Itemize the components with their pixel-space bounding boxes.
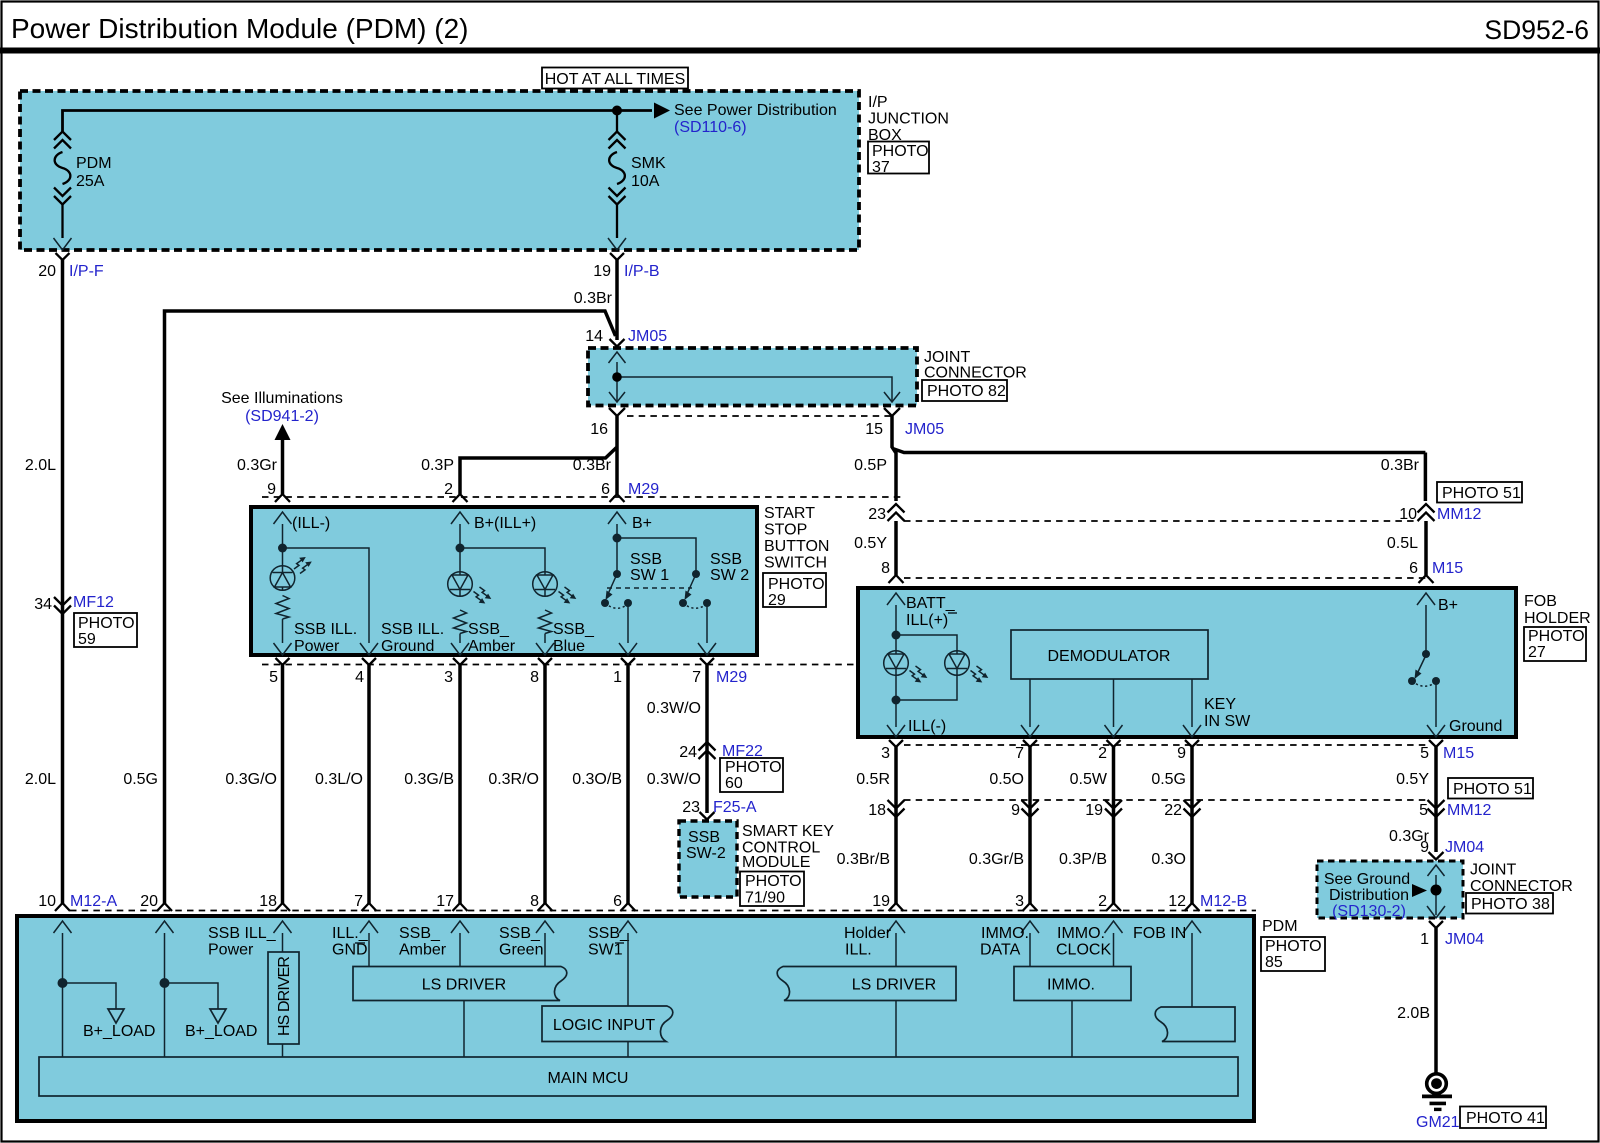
svg-text:7: 7	[692, 669, 701, 686]
svg-text:Power Distribution Module (PDM: Power Distribution Module (PDM) (2)	[11, 13, 468, 44]
key in switch	[1417, 605, 1426, 674]
svg-text:SWITCH: SWITCH	[764, 555, 827, 572]
svg-text:IMMO.: IMMO.	[981, 925, 1029, 942]
svg-text:0.5R: 0.5R	[856, 771, 890, 788]
gang dashed link	[607, 587, 692, 589]
svg-text:SSB_: SSB_	[553, 621, 595, 638]
svg-text:SSB ILL.: SSB ILL.	[381, 621, 444, 638]
SSB SW1 and SW2 switches	[617, 524, 696, 574]
wire 0.5L to FOB holder	[1424, 521, 1428, 575]
pin 19 I/P-B	[608, 238, 626, 260]
svg-text:9: 9	[1177, 745, 1186, 762]
MAIN MCU box	[39, 1057, 1238, 1096]
svg-text:B+(ILL+): B+(ILL+)	[474, 515, 536, 532]
pin 20 I/P-F	[54, 238, 72, 260]
LED SSB_Amber	[448, 572, 473, 597]
wire 0.3Br from 16 splitting to pins 2 and 6	[460, 416, 617, 494]
svg-text:0.3G/B: 0.3G/B	[404, 771, 454, 788]
svg-text:0.5P: 0.5P	[854, 457, 887, 474]
svg-text:(SD110-6): (SD110-6)	[674, 119, 747, 136]
svg-text:0.3L/O: 0.3L/O	[315, 771, 363, 788]
svg-text:SSB: SSB	[710, 551, 742, 568]
svg-text:SMART KEY: SMART KEY	[742, 823, 834, 840]
svg-text:JM04: JM04	[1445, 931, 1484, 948]
svg-text:M15: M15	[1443, 745, 1474, 762]
svg-text:20: 20	[140, 893, 158, 910]
svg-text:JM05: JM05	[905, 421, 944, 438]
svg-text:18: 18	[868, 802, 886, 819]
MM12 dashed line top	[904, 520, 1419, 522]
switch levers	[608, 574, 696, 594]
svg-text:1: 1	[613, 669, 622, 686]
svg-text:22: 22	[1164, 802, 1182, 819]
svg-text:6: 6	[613, 893, 622, 910]
svg-text:Blue: Blue	[553, 638, 585, 655]
connector 10 MM12	[1418, 504, 1435, 521]
svg-text:SW-2: SW-2	[686, 845, 726, 862]
svg-text:2: 2	[444, 481, 453, 498]
title separator line	[0, 48, 1600, 54]
LED holder ill 1	[884, 651, 909, 676]
svg-text:0.5G: 0.5G	[123, 771, 158, 788]
svg-text:MM12: MM12	[1437, 506, 1482, 523]
svg-text:(SD941-2): (SD941-2)	[245, 408, 319, 425]
PHOTO 82 box	[922, 380, 1007, 401]
junction dot at SMK branch	[612, 106, 622, 116]
arrow to power distribution	[654, 103, 670, 119]
svg-text:0.3Br: 0.3Br	[573, 457, 612, 474]
svg-text:B+: B+	[1438, 597, 1458, 614]
svg-text:9: 9	[1420, 839, 1429, 856]
svg-text:27: 27	[1528, 644, 1546, 661]
wire 0.3Br from I/P-B down to JM05	[615, 259, 619, 340]
svg-text:SW1: SW1	[588, 942, 623, 959]
demodulator output wires	[1030, 679, 1192, 727]
svg-text:PHOTO 41: PHOTO 41	[1466, 1110, 1545, 1127]
svg-text:ILL(-): ILL(-)	[908, 718, 946, 735]
svg-text:5: 5	[269, 669, 278, 686]
wire into LOGIC INPUT	[627, 933, 629, 1006]
connector 24 MF22	[699, 742, 716, 759]
fuse SMK 10A	[616, 115, 618, 133]
svg-text:20: 20	[38, 263, 56, 280]
inner wire of JM04	[1435, 875, 1437, 915]
arrow to junction	[1412, 884, 1427, 897]
svg-text:LS DRIVER: LS DRIVER	[422, 977, 506, 994]
svg-text:0.5L: 0.5L	[1387, 535, 1418, 552]
svg-text:18: 18	[259, 893, 277, 910]
M12 dashed line above PDM	[70, 910, 1256, 912]
svg-text:PHOTO 82: PHOTO 82	[927, 383, 1006, 400]
pins below SSB box	[276, 658, 715, 665]
wires FOB to MM12 row	[894, 746, 898, 904]
svg-text:5: 5	[1420, 745, 1429, 762]
wire: bus inside junction box	[63, 111, 653, 134]
wire into LS driver 2	[895, 933, 897, 967]
svg-text:0.3Gr/B: 0.3Gr/B	[969, 851, 1024, 868]
svg-text:0.3W/O: 0.3W/O	[647, 700, 701, 717]
connector 34 MF12	[54, 597, 71, 614]
wire 2.0L left vertical	[61, 259, 65, 904]
PDM box	[17, 916, 1254, 1121]
svg-text:59: 59	[78, 631, 96, 648]
svg-text:B+_LOAD: B+_LOAD	[185, 1023, 257, 1040]
svg-text:0.5O: 0.5O	[989, 771, 1024, 788]
svg-text:5: 5	[1419, 802, 1428, 819]
svg-text:Ground: Ground	[1449, 718, 1502, 735]
svg-text:23: 23	[682, 799, 700, 816]
svg-text:3: 3	[444, 669, 453, 686]
wire 0.3Gr up to see illuminations	[281, 438, 285, 494]
connector 5 MM12	[1428, 800, 1445, 817]
svg-text:0.5Y: 0.5Y	[1396, 771, 1429, 788]
svg-text:0.3Br: 0.3Br	[1381, 457, 1420, 474]
svg-text:M29: M29	[628, 481, 659, 498]
svg-text:GND: GND	[332, 942, 368, 959]
M15 dashed line	[904, 577, 1428, 579]
PHOTO 41 box	[1460, 1107, 1546, 1129]
svg-text:3: 3	[881, 745, 890, 762]
pin 16 JM05	[609, 408, 625, 416]
DEMODULATOR box	[1011, 630, 1208, 679]
svg-text:JUNCTION: JUNCTION	[868, 111, 949, 128]
svg-text:8: 8	[530, 893, 539, 910]
svg-text:JM04: JM04	[1445, 839, 1484, 856]
FOB illumination LEDs	[896, 605, 957, 727]
svg-text:0.5G: 0.5G	[1151, 771, 1186, 788]
svg-text:SMK: SMK	[631, 155, 666, 172]
svg-text:KEY: KEY	[1204, 696, 1236, 713]
I/P junction box (dashed)	[20, 91, 859, 250]
PHOTO 60 box	[720, 758, 783, 792]
SSB ILL power branch: wire, LED, resistor	[283, 524, 370, 643]
svg-text:0.3Br: 0.3Br	[574, 290, 613, 307]
svg-text:(SD130-2): (SD130-2)	[1332, 903, 1406, 920]
PHOTO 27 box	[1524, 627, 1586, 661]
svg-text:2.0L: 2.0L	[25, 457, 56, 474]
connector 22 MM12	[1184, 800, 1201, 817]
LED holder ill 2	[945, 651, 970, 676]
PHOTO 38 box	[1466, 893, 1553, 914]
svg-text:29: 29	[768, 592, 786, 609]
svg-text:PHOTO: PHOTO	[745, 873, 802, 890]
wires into LS driver 1	[369, 933, 545, 967]
svg-text:8: 8	[530, 669, 539, 686]
svg-text:0.5Y: 0.5Y	[854, 535, 887, 552]
svg-text:SSB_: SSB_	[399, 925, 441, 942]
svg-text:Green: Green	[499, 942, 543, 959]
svg-text:0.3O/B: 0.3O/B	[572, 771, 622, 788]
svg-text:85: 85	[1265, 954, 1283, 971]
svg-text:PHOTO: PHOTO	[725, 759, 782, 776]
ground GM21	[1427, 1074, 1447, 1094]
svg-text:F25-A: F25-A	[713, 799, 757, 816]
svg-text:12: 12	[1168, 893, 1186, 910]
LOGIC INPUT banner	[542, 1006, 673, 1042]
svg-text:M29: M29	[716, 669, 747, 686]
svg-text:Amber: Amber	[399, 942, 447, 959]
svg-text:0.3R/O: 0.3R/O	[488, 771, 539, 788]
svg-text:MAIN MCU: MAIN MCU	[548, 1070, 629, 1087]
FOB IN banner (blank)	[1155, 1007, 1235, 1042]
svg-text:LS DRIVER: LS DRIVER	[852, 977, 936, 994]
connector 18 MM12	[888, 800, 905, 817]
svg-text:IMMO.: IMMO.	[1047, 977, 1095, 994]
svg-text:BATT_: BATT_	[906, 595, 956, 612]
svg-text:PHOTO 51: PHOTO 51	[1453, 781, 1532, 798]
wire 0.5Y to FOB holder	[894, 521, 898, 575]
svg-text:2: 2	[1098, 745, 1107, 762]
svg-text:6: 6	[601, 481, 610, 498]
svg-text:14: 14	[585, 328, 603, 345]
svg-text:BUTTON: BUTTON	[764, 538, 829, 555]
svg-text:3: 3	[1015, 893, 1024, 910]
svg-text:M12-A: M12-A	[70, 893, 117, 910]
svg-text:0.5W: 0.5W	[1070, 771, 1108, 788]
svg-text:19: 19	[1085, 802, 1103, 819]
svg-text:JOINT: JOINT	[1470, 862, 1516, 879]
svg-text:B+_LOAD: B+_LOAD	[83, 1023, 155, 1040]
svg-text:0.3P: 0.3P	[421, 457, 454, 474]
B+ load branch 2	[165, 933, 219, 1057]
svg-text:I/P-F: I/P-F	[69, 263, 104, 280]
svg-text:Power: Power	[294, 638, 340, 655]
svg-text:SSB: SSB	[688, 829, 720, 846]
svg-text:60: 60	[725, 775, 743, 792]
M29 connector dashed line (top of SSB switch)	[262, 496, 905, 498]
LS DRIVER banner 2	[777, 967, 956, 1001]
svg-text:PHOTO: PHOTO	[872, 143, 929, 160]
LED SSB ILL	[270, 566, 295, 591]
svg-text:SSB_: SSB_	[499, 925, 541, 942]
B+ load branch 1	[63, 933, 117, 1057]
LS DRIVER banner 1	[353, 967, 567, 1001]
pin 15 JM05	[884, 408, 900, 416]
svg-text:Amber: Amber	[468, 638, 516, 655]
svg-text:19: 19	[872, 893, 890, 910]
svg-text:HS DRIVER: HS DRIVER	[276, 956, 293, 1036]
svg-text:PDM: PDM	[76, 155, 112, 172]
svg-text:LOGIC INPUT: LOGIC INPUT	[553, 1017, 655, 1034]
FOB box bottom pins	[887, 725, 905, 747]
IMMO. banner	[1014, 967, 1131, 1001]
svg-text:CONNECTOR: CONNECTOR	[924, 365, 1027, 382]
svg-text:8: 8	[881, 560, 890, 577]
PHOTO 51 box top right	[1437, 482, 1522, 503]
svg-text:SW 2: SW 2	[710, 567, 749, 584]
svg-text:19: 19	[593, 263, 611, 280]
svg-text:Holder: Holder	[844, 925, 892, 942]
svg-text:0.3W/O: 0.3W/O	[647, 771, 701, 788]
svg-text:9: 9	[1011, 802, 1020, 819]
svg-text:HOLDER: HOLDER	[1524, 610, 1591, 627]
svg-text:IMMO.: IMMO.	[1057, 925, 1105, 942]
LED SSB_Blue	[533, 572, 558, 597]
connector 19 MM12	[1105, 800, 1122, 817]
svg-text:PHOTO: PHOTO	[1528, 628, 1585, 645]
wire 0.3W/O pin 7 to MF22	[705, 665, 709, 813]
svg-text:PHOTO 38: PHOTO 38	[1471, 896, 1550, 913]
svg-text:See Illuminations: See Illuminations	[221, 390, 343, 407]
wire into FOB IN banner	[1191, 933, 1193, 1007]
START STOP BUTTON SWITCH box	[251, 507, 757, 655]
svg-text:0.3O: 0.3O	[1151, 851, 1186, 868]
PHOTO 71/90 box	[740, 872, 804, 907]
svg-text:HOT AT ALL TIMES: HOT AT ALL TIMES	[545, 71, 686, 88]
dashed line below FOB (M15)	[904, 744, 1428, 746]
FOB HOLDER box	[858, 588, 1516, 737]
svg-text:MF12: MF12	[73, 594, 114, 611]
svg-text:34: 34	[34, 596, 52, 613]
svg-text:SD952-6: SD952-6	[1484, 15, 1589, 45]
svg-text:ILL(+): ILL(+)	[906, 612, 948, 629]
wire 0.5P from 15 down and branch right 0.3Br	[892, 416, 1425, 501]
wires from contacts to pins 1 and 7	[628, 606, 707, 643]
wires into IMMO	[1030, 933, 1114, 967]
PDM pins	[54, 903, 72, 933]
svg-text:SSB ILL.: SSB ILL.	[294, 621, 357, 638]
svg-text:Ground: Ground	[381, 638, 434, 655]
svg-text:PHOTO: PHOTO	[78, 615, 135, 632]
joint connector box (dashed, top)	[588, 348, 917, 406]
dashed line below SSB box (M29)	[262, 664, 905, 666]
svg-text:GM21: GM21	[1416, 1114, 1460, 1131]
HS DRIVER box	[282, 933, 284, 1057]
pin 1 JM04	[1427, 906, 1445, 918]
svg-text:See Ground: See Ground	[1324, 871, 1410, 888]
svg-text:MODULE: MODULE	[742, 854, 810, 871]
svg-text:23: 23	[868, 506, 886, 523]
svg-text:DEMODULATOR: DEMODULATOR	[1048, 648, 1171, 665]
svg-text:I/P: I/P	[868, 94, 888, 111]
svg-text:JOINT: JOINT	[924, 349, 970, 366]
arrowheads to pins 5 and 4	[274, 643, 379, 655]
svg-text:0.3Br/B: 0.3Br/B	[837, 851, 890, 868]
PHOTO 29 box	[763, 573, 826, 607]
svg-text:16: 16	[590, 421, 608, 438]
connector 23 MM12	[888, 504, 905, 521]
svg-text:PDM: PDM	[1262, 918, 1298, 935]
svg-text:SSB_: SSB_	[588, 925, 630, 942]
svg-text:2.0L: 2.0L	[25, 771, 56, 788]
inner wire and junction of joint connector	[617, 362, 892, 402]
fuse PDM 25A	[54, 132, 71, 205]
svg-text:0.3P/B: 0.3P/B	[1059, 851, 1107, 868]
wire 0.5G vertical with bend to JM05	[165, 311, 616, 904]
wires from SSB box down to PDM	[281, 665, 285, 904]
svg-text:71/90: 71/90	[745, 890, 785, 907]
svg-text:0.3G/O: 0.3G/O	[225, 771, 277, 788]
PHOTO 51 box bottom	[1448, 778, 1533, 799]
svg-text:37: 37	[872, 159, 890, 176]
svg-text:PHOTO: PHOTO	[1265, 938, 1322, 955]
SSB SW-2 box (dashed)	[679, 821, 737, 897]
svg-text:Distribution: Distribution	[1329, 887, 1409, 904]
joint connector JM04 box (dashed)	[1317, 861, 1463, 918]
svg-text:2.0B: 2.0B	[1397, 1005, 1430, 1022]
connector 9 MM12	[1022, 800, 1039, 817]
PHOTO 59 box	[74, 613, 137, 647]
B+(ILL+) branch: LEDs amber and blue with resistors	[460, 524, 545, 572]
svg-text:DATA: DATA	[980, 942, 1021, 959]
svg-text:SSB: SSB	[630, 551, 662, 568]
PHOTO 37 box	[868, 142, 929, 174]
svg-text:B+: B+	[632, 515, 652, 532]
svg-text:PHOTO 51: PHOTO 51	[1442, 485, 1521, 502]
svg-text:SSB ILL_: SSB ILL_	[208, 925, 277, 942]
svg-text:STOP: STOP	[764, 522, 807, 539]
HOT AT ALL TIMES label	[542, 68, 688, 89]
svg-text:MM12: MM12	[1447, 802, 1492, 819]
svg-text:SSB_: SSB_	[468, 621, 510, 638]
svg-text:SW 1: SW 1	[630, 567, 669, 584]
svg-text:7: 7	[1015, 745, 1024, 762]
svg-text:M12-B: M12-B	[1200, 893, 1247, 910]
arrowheads to pins 3 and 8	[451, 643, 554, 655]
svg-text:4: 4	[355, 669, 364, 686]
svg-text:24: 24	[679, 744, 697, 761]
PHOTO 85 box	[1261, 937, 1325, 971]
svg-text:ILL.: ILL.	[845, 942, 872, 959]
svg-text:7: 7	[354, 893, 363, 910]
wire 2.0B to ground	[1434, 928, 1438, 1073]
MM12 dashed line bottom	[904, 799, 1428, 801]
svg-text:ILL._: ILL._	[332, 925, 369, 942]
svg-text:9: 9	[267, 481, 276, 498]
svg-text:IN SW: IN SW	[1204, 713, 1251, 730]
svg-text:10: 10	[38, 893, 56, 910]
svg-text:FOB: FOB	[1524, 593, 1557, 610]
svg-text:25A: 25A	[76, 173, 105, 190]
dashed line below joint connector	[627, 415, 891, 417]
svg-text:2: 2	[1098, 893, 1107, 910]
svg-text:17: 17	[436, 893, 454, 910]
svg-text:JM05: JM05	[628, 328, 667, 345]
switch contacts	[601, 599, 609, 607]
svg-text:1: 1	[1420, 931, 1429, 948]
svg-text:15: 15	[865, 421, 883, 438]
svg-text:0.3Gr: 0.3Gr	[237, 457, 278, 474]
svg-text:10A: 10A	[631, 173, 660, 190]
svg-text:I/P-B: I/P-B	[624, 263, 660, 280]
svg-text:(ILL-): (ILL-)	[292, 515, 330, 532]
svg-text:PHOTO: PHOTO	[768, 576, 825, 593]
svg-text:CLOCK: CLOCK	[1056, 942, 1111, 959]
svg-text:M15: M15	[1432, 560, 1463, 577]
svg-text:See Power Distribution: See Power Distribution	[674, 102, 837, 119]
svg-text:START: START	[764, 505, 815, 522]
svg-text:6: 6	[1409, 560, 1418, 577]
resistor SSB ILL	[276, 596, 289, 620]
svg-text:Power: Power	[208, 942, 254, 959]
svg-text:FOB IN: FOB IN	[1133, 925, 1186, 942]
